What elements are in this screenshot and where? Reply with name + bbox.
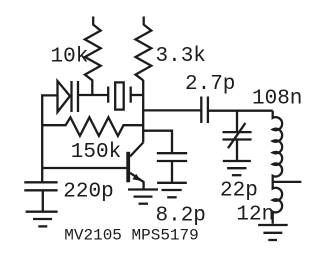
- wire varcap stub: [236, 111, 238, 132]
- svg-text:12n: 12n: [236, 203, 274, 226]
- svg-text:8.2p: 8.2p: [156, 204, 206, 227]
- capacitor C1 2.7p: [201, 97, 208, 124]
- ground (C2): [157, 183, 187, 198]
- varactor D1: [58, 81, 109, 112]
- ground (L1): [258, 225, 288, 240]
- svg-text:22p: 22p: [220, 179, 258, 202]
- capacitor C4 220p: [24, 182, 57, 211]
- transistor Q1 MPS5179: [128, 143, 143, 190]
- svg-text:3.3k: 3.3k: [156, 45, 206, 68]
- ground (C3): [223, 161, 251, 175]
- resistor R2 3.3k: [136, 17, 152, 81]
- inductor L1: [273, 111, 282, 224]
- svg-text:150k: 150k: [71, 141, 121, 164]
- wire tap: [273, 181, 302, 183]
- resistor R3 150k: [42, 117, 143, 136]
- svg-text:220p: 220p: [63, 180, 113, 203]
- resistor R1 10k: [85, 17, 101, 96]
- variable capacitor C3 22p: [223, 123, 252, 161]
- wire collector to C2: [143, 131, 172, 154]
- svg-text:108n: 108n: [252, 87, 302, 110]
- wire 2.7p row: [143, 109, 201, 111]
- wire main rail: [142, 80, 144, 143]
- ground (C4): [26, 212, 58, 227]
- capacitor C2 8.2p: [157, 153, 187, 182]
- wire to tank: [208, 110, 273, 112]
- svg-text:10k: 10k: [51, 46, 89, 69]
- svg-text:MV2105 MPS5179: MV2105 MPS5179: [64, 227, 198, 245]
- crystal X1: [108, 82, 143, 109]
- wire base row: [42, 167, 126, 169]
- wire anode corner / left rail: [42, 95, 57, 182]
- ground (emitter): [128, 190, 158, 204]
- svg-text:2.7p: 2.7p: [185, 73, 235, 96]
